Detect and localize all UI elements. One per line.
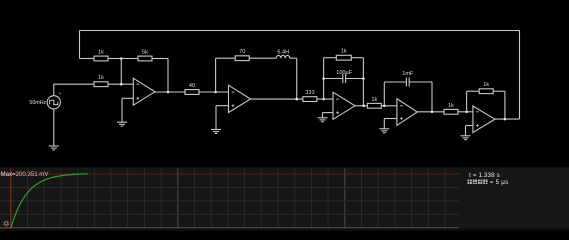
ground below V1 [49,146,59,150]
wire R6 to U3 minus [317,98,333,100]
op-amp U3 [333,92,355,119]
wire U1 plus stub [122,97,133,99]
junction cap branch left [322,77,325,80]
ground below U1 plus input [117,122,127,126]
resistor R10 1k (U5 feedback) [479,82,493,93]
svg-text:40: 40 [189,83,195,89]
wire R2 right [152,58,168,60]
voltage source V1 50mHz square wave [29,91,61,109]
svg-text:1mF: 1mF [402,71,414,77]
junction U2 input node [214,91,217,94]
wire U2 output [251,98,304,100]
wire global feedback top [80,30,520,32]
junction U1 output / R2 feedback [167,91,170,94]
wire R1 to node A [108,58,121,60]
wire R8 to U4 minus [381,105,397,107]
scope settings gear icon [3,221,9,227]
wire U2 input node up [215,58,217,92]
scope below-plot darker strip [0,228,569,231]
junction cap branch right [362,77,365,80]
wire U4 feedback right [409,81,432,83]
op-amp U1 [133,78,155,105]
svg-text:6.4H: 6.4H [277,49,289,55]
wire U4 output [417,111,444,113]
svg-text:t = 1.338 s: t = 1.338 s [469,172,500,179]
capacitor C2 1mF (U4 feedback) [406,77,409,86]
ground below U4 plus input [379,129,389,133]
wire U2 plus down [215,106,217,130]
resistor R3 1k (input) [94,75,108,86]
resistor R9 1k [444,103,458,114]
junction node A top [120,57,123,60]
wire to R1 [80,58,95,60]
wire U3 input node up [323,58,325,99]
wire U4 feedback left [384,81,406,83]
svg-text:333: 333 [305,90,314,96]
op-amp U2 [229,85,251,112]
wire U5 feedback down [504,91,506,119]
wire L1 right [290,57,297,59]
resistor R8 1k [367,97,381,108]
scope sweep cursor (red vertical line) [10,169,12,229]
resistor R1 1k (global feedback) [94,50,108,61]
junction U2 output / feedback [295,98,298,101]
junction U3 input node [322,98,325,101]
wire R9 to U5 minus [458,111,473,113]
svg-text:1k: 1k [448,103,454,109]
wire U4 plus down [383,119,385,129]
scope trace (green exponential curve) [11,174,88,229]
junction node A bottom [120,83,123,86]
wire cap branch right [346,78,364,80]
wire U5 input node up [466,91,468,112]
svg-text:1k: 1k [371,97,377,103]
svg-text:1k: 1k [98,75,104,81]
ground below U5 plus input [461,136,471,140]
wire input row to R3 [54,83,94,85]
wire U1 plus down [121,98,123,122]
svg-text:70: 70 [239,49,245,55]
scope vertical gridlines [28,168,446,228]
svg-text:100µF: 100µF [336,70,353,76]
wire R2 down to U1 output [167,59,169,93]
wire to R5 [216,57,236,59]
op-amp U4 [397,99,417,126]
wire U3 plus stub [323,112,334,114]
svg-text:= 5 μs: = 5 μs [490,179,509,186]
scope previous-sweep trace (dim red, plateau) [0,173,459,175]
wire U1 output [155,91,186,93]
svg-text:1k: 1k [341,49,347,55]
wire U3 output [355,105,367,107]
junction U5 input node [465,111,468,114]
wire U4 feedback down [431,82,433,112]
info label 时间步长 (time step) [468,180,488,185]
scope previous-sweep trace remnant (dim red, bottom left) [0,227,11,229]
wire U4 input node up [383,82,385,106]
junction U3 output / feedback [362,105,365,108]
ground below U2 plus input [211,130,221,134]
op-amp U5 [473,106,495,133]
inductor L1 6.4H [276,49,290,58]
svg-text:1k: 1k [483,82,489,88]
wire R3 to U1 minus [108,83,133,85]
junction U4 input node [383,105,386,108]
wire R5 to L1 [249,57,276,59]
wire node A vertical [120,59,122,85]
junction U4 output / feedback [431,111,434,114]
wire R10 right [493,90,505,92]
resistor R6 333 [303,90,317,101]
wire cap branch left [324,78,343,80]
resistor R2 5k (U1 feedback) [138,50,152,61]
resistor R5 70 (U2 feedback) [235,49,249,60]
svg-text:50mHz: 50mHz [29,100,46,106]
wire to R7 [324,57,337,59]
wire R4 to U2 minus [198,91,228,93]
wire global feedback left vertical [79,31,81,59]
scope horizontal gridlines [0,187,459,227]
wire to R10 [467,90,479,92]
scope background strip [0,167,569,231]
wire V1 top to input row [53,84,55,96]
wire U5 output to right vertical [495,118,520,120]
svg-text:+: + [59,91,62,96]
wire R7 right [352,57,364,59]
capacitor C1 100uF (U3 feedback) [343,74,346,83]
resistor R7 1k (U3 feedback) [336,49,351,60]
wire global feedback right vertical [519,31,521,120]
wire U2 plus stub [216,105,229,107]
svg-text:Max=200.351 mV: Max=200.351 mV [1,171,50,178]
wire U3 plus down [322,113,324,118]
wire U5 plus down [465,126,467,136]
wire node A to R2 [121,58,138,60]
wire L1 down to U2 output [296,58,298,99]
svg-text:1k: 1k [98,50,104,56]
wire V1 bottom to ground [53,109,55,146]
wire U4 plus stub [384,118,397,120]
junction U5 output / feedback / loop [504,118,507,121]
wire U3 feedback right vertical [362,58,364,106]
svg-text:5k: 5k [142,50,148,56]
ground below U3 plus input [318,118,328,122]
wire U5 plus stub [466,125,473,127]
resistor R4 40 [185,83,199,94]
